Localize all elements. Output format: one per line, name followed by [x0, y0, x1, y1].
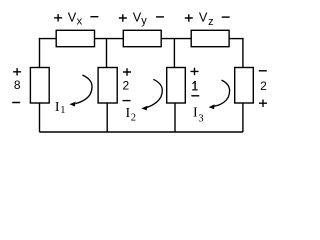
wire junction node A drop — [106, 39, 108, 68]
svg-text:y: y — [141, 15, 147, 27]
mesh current I1 arrow arc — [76, 75, 92, 104]
wire left vertical lower — [39, 103, 41, 132]
element Vy box — [123, 30, 161, 46]
svg-text:3: 3 — [198, 113, 203, 124]
element Vz box — [191, 30, 229, 46]
label plus of element 1 — [191, 68, 199, 75]
label minus of Vx — [90, 16, 98, 17]
value 1 of third branch (digit with base serif) — [192, 81, 198, 90]
mesh current I1 arrowhead — [69, 102, 75, 107]
label minus of Vz — [222, 16, 230, 17]
wire top rail segment 4 — [229, 38, 244, 40]
label plus of element 2 (second branch) — [123, 68, 131, 75]
source 8V box — [30, 68, 49, 104]
label plus of Vz — [185, 14, 193, 21]
label plus of Vx — [54, 14, 62, 21]
wire top rail segment 3 — [161, 38, 191, 40]
label minus of element 1 — [191, 95, 199, 96]
label minus of Vy — [156, 16, 164, 17]
wire bottom rail — [40, 131, 243, 133]
label minus of 8V source — [12, 102, 20, 103]
svg-text:2: 2 — [122, 79, 129, 93]
wire below element R2 — [106, 103, 108, 132]
label plus of element 2 (right branch) — [259, 100, 267, 107]
label minus of element 2 (right branch) — [259, 70, 267, 71]
label I3 — [193, 105, 204, 124]
svg-text:8: 8 — [14, 78, 21, 92]
label plus of Vy — [119, 14, 127, 21]
svg-text:V: V — [199, 10, 208, 25]
element 2V box (right branch) — [235, 68, 254, 104]
element 2V box (second branch) — [98, 68, 117, 104]
svg-text:2: 2 — [131, 113, 136, 124]
mesh current I3 arrowhead — [209, 104, 215, 109]
svg-text:V: V — [68, 10, 77, 25]
wire left vertical upper — [39, 38, 41, 68]
svg-text:2: 2 — [260, 79, 267, 93]
mesh current I3 arrow arc — [214, 80, 230, 106]
label Vy — [133, 10, 148, 28]
element Vx box — [56, 30, 94, 46]
label I2 — [126, 106, 136, 124]
wire right vertical lower — [242, 103, 244, 132]
label I1 — [55, 100, 66, 116]
element 1V box (third branch) — [167, 68, 186, 104]
label Vx — [68, 10, 83, 28]
svg-text:1: 1 — [60, 105, 65, 116]
svg-text:z: z — [208, 16, 214, 28]
label plus of 8V source — [13, 68, 21, 75]
svg-text:I: I — [193, 105, 198, 120]
label Vz — [199, 10, 214, 28]
wire top rail segment 1 — [39, 38, 56, 40]
svg-text:x: x — [77, 16, 83, 28]
wire top rail segment 2 — [95, 38, 124, 40]
mesh current I2 arrowhead — [141, 106, 147, 111]
wire junction node B drop — [173, 39, 175, 68]
svg-text:I: I — [55, 100, 60, 115]
label minus of element 2 (second branch) — [123, 100, 131, 101]
mesh current I2 arrow arc — [147, 79, 163, 107]
wire right vertical upper — [242, 38, 244, 68]
wire below element R3 — [174, 103, 176, 132]
